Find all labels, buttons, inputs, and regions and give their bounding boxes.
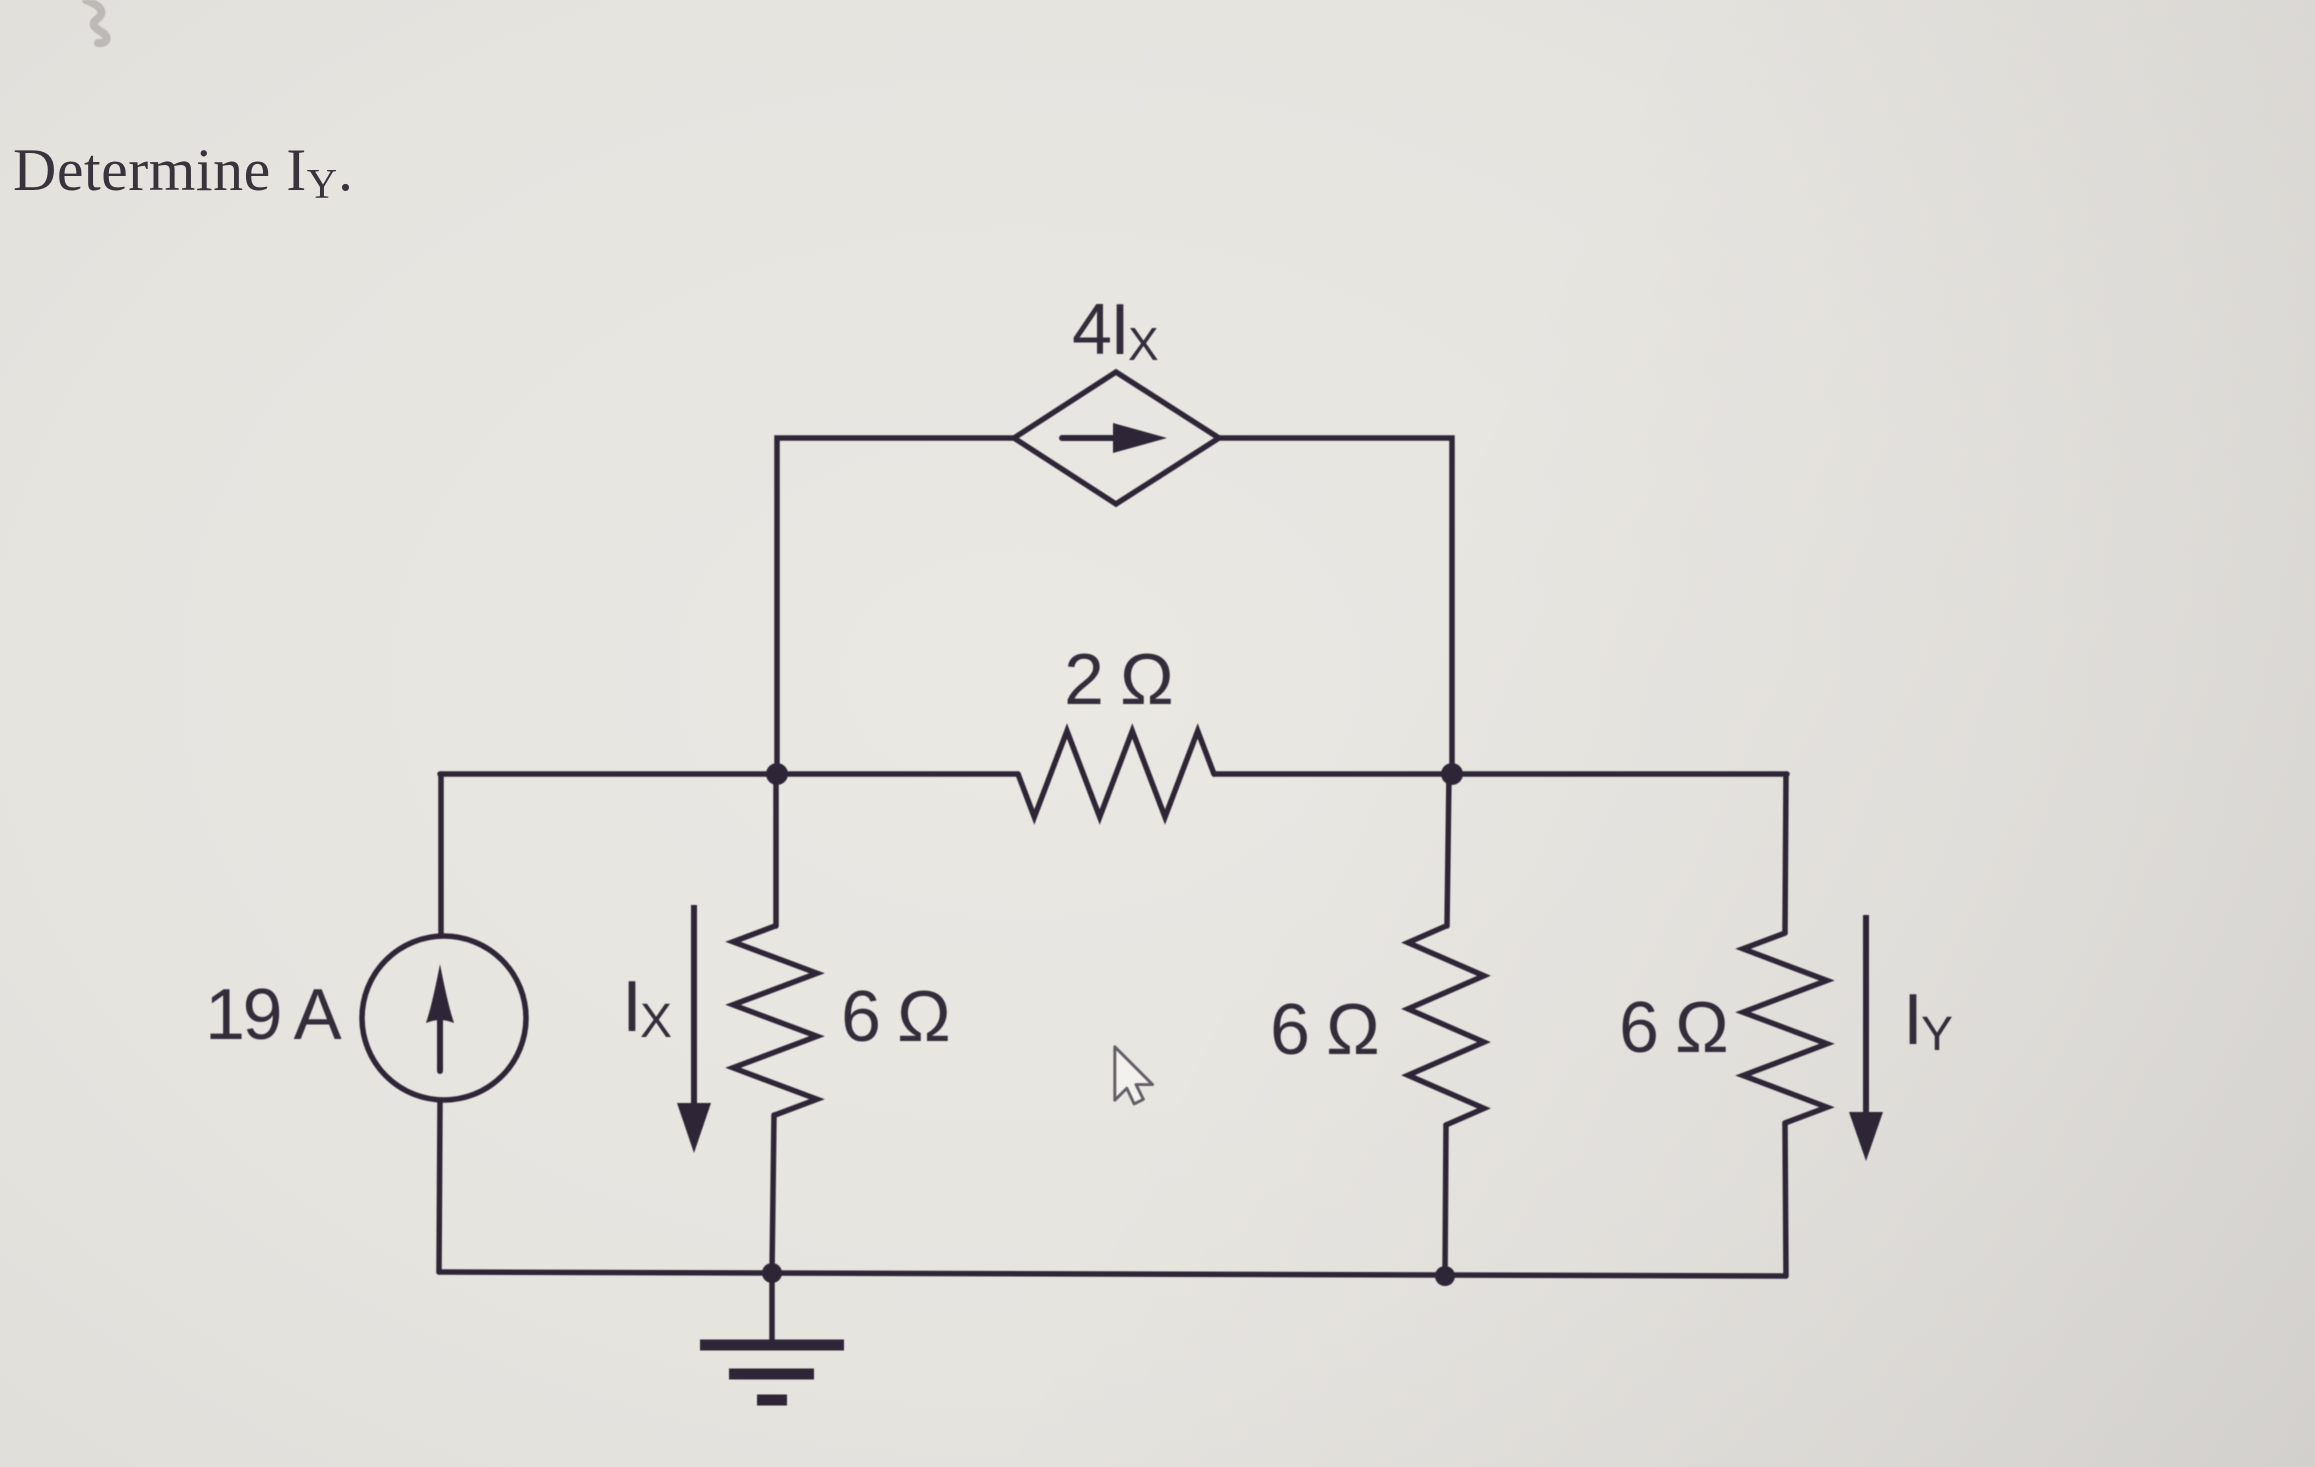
svg-text:2 Ω: 2 Ω <box>1064 640 1172 720</box>
svg-text:6 Ω: 6 Ω <box>1270 990 1378 1070</box>
svg-text:IX: IX <box>622 967 672 1048</box>
resistor R3 6ohm (right outer) <box>1743 933 1827 1123</box>
current source I1 19A circle <box>362 936 526 1100</box>
resistor 2ohm (horizontal) <box>1018 731 1214 817</box>
ground stub <box>769 1272 775 1341</box>
svg-text:IY: IY <box>1903 980 1952 1061</box>
svg-text:4IX: 4IX <box>1072 290 1158 370</box>
svg-text:6 Ω: 6 Ω <box>1619 988 1727 1068</box>
node G junction dot (ground, bottom wire) <box>762 1263 782 1283</box>
dependent source U1 diamond 4Ix <box>1014 372 1219 504</box>
Ix current arrow <box>677 905 711 1153</box>
resistor R1 6ohm leads <box>773 774 779 926</box>
wire: top-loop left vertical and top horizontal to diamond <box>777 438 1014 774</box>
wire: middle horizontal left segment <box>440 771 1018 777</box>
wire: left outer vertical top (to current source) <box>438 774 444 934</box>
mouse cursor <box>1115 1047 1153 1104</box>
Iy current arrow <box>1849 915 1883 1161</box>
resistor R2 6ohm top lead <box>1447 774 1449 926</box>
node A junction dot (left, middle wire) <box>766 763 788 785</box>
ground symbol bars <box>700 1345 844 1400</box>
wire: left outer vertical bottom <box>439 1103 440 1272</box>
problem text "Determine IY." <box>13 136 354 209</box>
junction dot bottom right <box>1435 1266 1455 1286</box>
wire: R2 bottom lead <box>1445 1125 1446 1276</box>
arrow inside source (points up) <box>437 1012 443 1071</box>
faint smudge top-left <box>86 0 107 43</box>
svg-text:19 A: 19 A <box>205 975 342 1055</box>
resistor R1 6ohm (left, carries Ix) <box>733 926 817 1115</box>
svg-text:6 Ω: 6 Ω <box>841 977 949 1057</box>
wire: middle horizontal right segment to right outer corner <box>1214 771 1787 777</box>
wire: right outer vertical top lead <box>1785 774 1786 933</box>
wire: diamond right to top-loop right vertical down to middle wire <box>1219 438 1452 774</box>
node B junction dot (right, middle wire) <box>1441 763 1463 785</box>
arrow inside diamond (points right) <box>1062 435 1118 441</box>
wire: right outer vertical (bottom lead of R3) <box>1785 1123 1786 1276</box>
resistor R2 6ohm (middle) <box>1408 926 1484 1125</box>
wire: R1 bottom lead <box>772 1115 774 1272</box>
wire: bottom horizontal <box>439 1272 1786 1276</box>
